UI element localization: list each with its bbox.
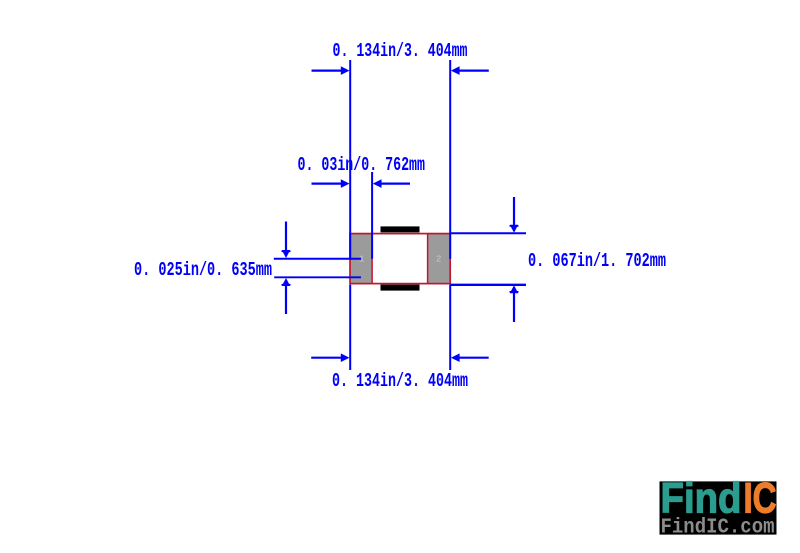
- extension line left x350 upper: [349, 60, 351, 259]
- logo background: [660, 481, 777, 534]
- right dim arrow up: [510, 285, 518, 293]
- pad 1 inner edge: [371, 233, 373, 284]
- pad-width dim arrow right-pointing: [341, 179, 350, 188]
- svg-text:0. 067in/1. 702mm: 0. 067in/1. 702mm: [528, 250, 666, 272]
- extension line left x350 lower: [349, 285, 351, 370]
- extension line right x450 upper: [449, 60, 451, 259]
- bottom dim leader left: [311, 357, 342, 359]
- left dim top horizontal: [274, 258, 361, 260]
- right dim vertical upper: [513, 197, 515, 227]
- right dim arrow down: [510, 225, 518, 233]
- top dim leader left: [312, 69, 343, 71]
- svg-text:2: 2: [436, 255, 441, 265]
- left dim arrow down: [282, 250, 290, 258]
- left dim vertical upper: [285, 222, 287, 253]
- pad-width dim leader left: [312, 183, 343, 185]
- bottom dim leader right: [459, 357, 489, 359]
- svg-text:0. 134in/3. 404mm: 0. 134in/3. 404mm: [332, 370, 468, 392]
- pad 1: [350, 233, 372, 284]
- svg-text:Find: Find: [661, 474, 742, 522]
- right dim vertical lower: [513, 290, 515, 322]
- bottom dim arrow left-pointing: [451, 353, 460, 362]
- svg-text:0. 025in/0. 635mm: 0. 025in/0. 635mm: [134, 259, 272, 281]
- silkscreen top bar: [381, 226, 420, 232]
- svg-text:FindIC.com: FindIC.com: [661, 517, 775, 540]
- right dim bottom horizontal: [450, 284, 526, 286]
- svg-text:0. 134in/3. 404mm: 0. 134in/3. 404mm: [333, 40, 468, 62]
- top dim leader right: [459, 69, 489, 71]
- svg-text:IC: IC: [744, 474, 777, 522]
- svg-text:0. 03in/0. 762mm: 0. 03in/0. 762mm: [298, 154, 426, 176]
- extension line right x450 lower: [449, 285, 451, 370]
- left dim bottom horizontal: [274, 276, 361, 278]
- pad 2 inner edge: [427, 233, 429, 284]
- left dim arrow up: [282, 278, 290, 286]
- right dim top horizontal: [450, 232, 526, 234]
- component outline: [350, 234, 450, 284]
- bottom dim arrow right-pointing: [341, 353, 350, 362]
- top dim arrow right-pointing: [341, 66, 350, 75]
- pad-width dim leader right: [381, 183, 411, 185]
- pad 2: [427, 233, 450, 284]
- extension line pad inner x372: [371, 172, 373, 259]
- silkscreen bottom bar: [381, 285, 420, 291]
- left dim vertical lower: [285, 283, 287, 314]
- top dim arrow left-pointing: [451, 66, 460, 75]
- pad-width dim arrow left-pointing: [373, 179, 382, 188]
